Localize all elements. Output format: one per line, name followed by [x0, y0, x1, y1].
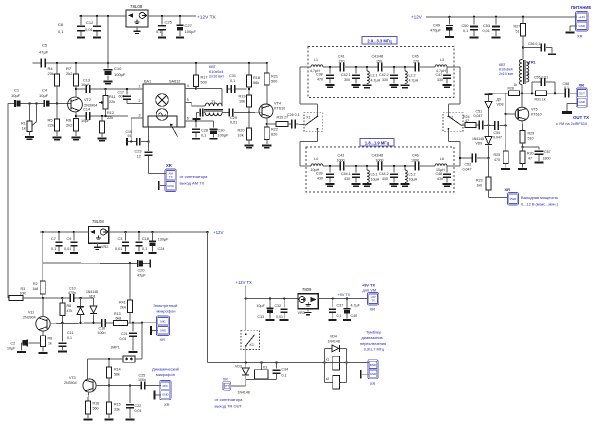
svg-text:выход АМ ТХ: выход АМ ТХ: [180, 181, 205, 186]
svg-text:ПТТ: ПТТ: [224, 384, 230, 388]
svg-text:C26 0,1: C26 0,1: [287, 113, 300, 117]
inductor L6: [435, 157, 447, 172]
annotation +9V TX dlya VM: [362, 282, 376, 292]
wire VD4 loop: [324, 348, 346, 382]
ground at dynamic GND: [154, 391, 161, 400]
svg-text:78L08: 78L08: [92, 219, 104, 224]
inductor L3: [435, 58, 447, 73]
svg-text:C31: C31: [229, 74, 236, 78]
svg-text:430: 430: [317, 176, 323, 180]
node C22 top: [129, 384, 131, 386]
svg-text:R20: R20: [238, 129, 245, 133]
svg-text:10µF: 10µF: [257, 304, 266, 308]
capacitor C2 polarized: [7, 339, 41, 352]
net label +12V TX bottom: [236, 280, 253, 285]
svg-text:Динамический: Динамический: [152, 367, 179, 372]
capacitor C17: [118, 88, 132, 104]
svg-text:ТХ: ТХ: [169, 175, 173, 179]
svg-text:C43/48: C43/48: [372, 154, 384, 158]
svg-text:78L08: 78L08: [130, 4, 143, 9]
svg-text:R30: R30: [527, 152, 534, 156]
wire +12V TX top rail left: [79, 15, 126, 17]
capacitor C1 polarized: [11, 88, 21, 108]
label XR electret: [160, 337, 166, 342]
wire filter2 entry: [300, 165, 311, 167]
svg-text:1000: 1000: [337, 158, 345, 162]
svg-text:1.8...1.9 МГц: 1.8...1.9 МГц: [365, 140, 390, 145]
svg-text:C12: C12: [86, 20, 94, 25]
net label +12V right: [411, 15, 423, 20]
node bus R4: [56, 62, 58, 64]
svg-text:2х10 вит: 2х10 вит: [209, 75, 224, 79]
capacitor C52 series: [459, 154, 489, 172]
voltage regulator VR2: [88, 227, 108, 244]
svg-text:2N3904: 2N3904: [64, 381, 77, 385]
connector XR AM TX: [165, 169, 176, 192]
svg-text:R12: R12: [107, 111, 114, 115]
core label TR1 blue: [499, 63, 514, 76]
connector XR dynamic: [160, 381, 171, 400]
capacitor C27 polarized: [176, 16, 196, 39]
net label +9V TX on wire: [338, 293, 351, 297]
svg-text:КВТ: КВТ: [499, 63, 506, 67]
capacitor C18: [135, 232, 149, 254]
wire VT2 emitter: [75, 112, 77, 119]
svg-text:XR: XR: [577, 34, 583, 39]
svg-text:C30: C30: [218, 129, 225, 133]
svg-text:выход TR OUT: выход TR OUT: [215, 404, 243, 409]
filter1 title box: [362, 37, 397, 45]
wire second rail: [43, 262, 137, 265]
svg-text:C28: C28: [201, 129, 208, 133]
svg-text:C34: C34: [282, 368, 289, 372]
resistor R14: [107, 359, 121, 386]
transistor VT2 2N3904: [68, 97, 98, 112]
wire C29 to VT4 base: [234, 111, 262, 113]
svg-text:470: 470: [317, 77, 323, 81]
svg-text:1k8: 1k8: [33, 287, 39, 291]
resistor R8: [60, 298, 73, 323]
svg-text:0,1: 0,1: [156, 29, 162, 34]
capacitor C42.1: [341, 66, 361, 88]
svg-text:XR: XR: [223, 378, 228, 382]
oscillator symbol: [156, 109, 168, 121]
ground below VR2: [94, 243, 101, 250]
capacitor C16b 100n series: [98, 319, 106, 335]
wire main bus y63: [46, 62, 267, 64]
node C50: [473, 16, 475, 18]
svg-text:1k0: 1k0: [477, 183, 483, 187]
svg-text:К10х6х4: К10х6х4: [209, 70, 223, 74]
net label +12V TX: [197, 14, 217, 20]
oscillator sub-box: [148, 116, 178, 137]
resistor R29: [520, 131, 534, 148]
svg-text:56k: 56k: [114, 372, 120, 376]
svg-text:2.9...3.3 МГц: 2.9...3.3 МГц: [367, 38, 392, 43]
capacitor C23: [135, 150, 153, 159]
svg-text:XR: XR: [579, 83, 585, 88]
node R2 R3 collector: [42, 297, 44, 299]
node C18: [138, 231, 140, 233]
resistor R15 series: [267, 116, 291, 127]
wire audio input: [8, 103, 14, 105]
svg-text:+12V TX: +12V TX: [236, 280, 253, 285]
wire VR2 output bus: [109, 231, 208, 233]
svg-text:0,01: 0,01: [230, 121, 237, 125]
svg-text:C42.2: C42.2: [379, 73, 389, 77]
wire C10b to diodes: [75, 297, 94, 299]
capacitor C25: [156, 16, 173, 39]
node VD1a bottom: [79, 322, 81, 324]
pin 2: [137, 99, 143, 104]
svg-text:100µF: 100µF: [114, 72, 126, 77]
svg-text:от синтезатора: от синтезатора: [180, 174, 209, 179]
wire V11 collector: [42, 298, 44, 317]
svg-text:22k: 22k: [107, 116, 113, 120]
relay coil k2: [324, 376, 346, 390]
svg-text:100µF: 100µF: [218, 133, 230, 137]
wire base: [506, 113, 516, 115]
node junction C27: [179, 15, 181, 17]
jumper JMP1: [109, 323, 142, 362]
svg-text:R29: R29: [528, 132, 535, 136]
svg-text:47µF: 47µF: [137, 274, 146, 278]
svg-text:C41/48: C41/48: [372, 55, 384, 59]
svg-text:R22: R22: [271, 128, 278, 132]
svg-text:10µF: 10µF: [81, 83, 90, 87]
svg-text:130µF: 130µF: [158, 238, 170, 242]
svg-text:+12V: +12V: [411, 15, 423, 20]
wire K3 to rail: [245, 346, 247, 363]
svg-text:KT610: KT610: [274, 107, 285, 111]
node emitter C14: [75, 115, 77, 117]
wire C23 to AM TX pin: [149, 156, 167, 174]
resistor R13 series: [106, 312, 156, 325]
svg-text:C38: C38: [316, 73, 323, 77]
node JMP left: [108, 358, 110, 360]
svg-text:10µF: 10µF: [39, 93, 49, 98]
capacitor C33 10uF: [257, 299, 275, 321]
label XR PITANIE: [577, 34, 583, 39]
svg-text:C56 0,1: C56 0,1: [528, 42, 540, 46]
wire filter1 exit: [447, 66, 460, 68]
wire T1 secondary to C29: [222, 112, 229, 114]
wire emitter node: [523, 146, 540, 148]
relay X1 label: [306, 115, 311, 119]
pin 5: [185, 98, 192, 102]
transistor VT4 KT610: [259, 102, 285, 119]
node R18 R19 C31: [248, 88, 250, 90]
ground below VR1: [134, 27, 141, 34]
relay X1 switch: [305, 115, 318, 129]
svg-text:600: 600: [119, 94, 125, 98]
wire C4 to VT2 base: [50, 103, 71, 105]
node R27: [522, 16, 524, 18]
node R11 top: [104, 88, 106, 90]
svg-text:Тумблер: Тумблер: [366, 330, 381, 335]
svg-text:0,01: 0,01: [276, 315, 283, 319]
resistor R2: [33, 263, 46, 298]
resistor R30: [518, 147, 534, 170]
node junction C10 feed: [107, 15, 109, 17]
svg-text:к1: к1: [326, 357, 329, 361]
svg-text:C42.1: C42.1: [341, 73, 351, 77]
resistor R31: [535, 91, 565, 102]
capacitor C11: [58, 323, 74, 353]
inductor L2.1: [362, 66, 380, 89]
svg-text:к УМ на 2xIRF510: к УМ на 2xIRF510: [556, 122, 587, 126]
resistor R21: [264, 63, 278, 104]
pin 4: [185, 84, 196, 88]
capacitor C49 470uF: [430, 17, 454, 38]
node mixer bottom: [147, 140, 149, 142]
svg-text:1N4148: 1N4148: [472, 137, 484, 141]
svg-text:C50: C50: [462, 24, 469, 28]
connector PITANIE label: [571, 5, 591, 10]
wire +12V right rail: [426, 16, 576, 18]
svg-text:C49: C49: [433, 24, 440, 28]
resistor R25: [494, 125, 511, 170]
svg-text:1k: 1k: [22, 126, 26, 130]
capacitor C39: [316, 165, 335, 187]
capacitor C56 to ground: [522, 42, 556, 55]
node R11 bottom: [104, 115, 106, 117]
node C49: [448, 16, 450, 18]
net label +12V bottom: [213, 230, 223, 235]
node R41 riser: [129, 262, 131, 264]
wire VT4 emitter: [266, 118, 268, 124]
relay K2 dashed box: [443, 113, 463, 132]
resistor R3 series: [9, 287, 26, 301]
capacitor C10 100uF: [103, 63, 126, 85]
svg-text:R6: R6: [48, 337, 53, 341]
node B C52: [487, 157, 489, 159]
transformer TR1: [519, 59, 529, 93]
svg-text:C3: C3: [118, 237, 123, 241]
svg-text:0,1: 0,1: [463, 29, 468, 33]
resistor R19: [239, 95, 252, 113]
relay K3 contact dashed box: [241, 330, 260, 349]
relay K3 switch: [245, 333, 255, 346]
svg-text:к2: к2: [326, 377, 329, 381]
svg-text:X1: X1: [306, 115, 311, 119]
svg-text:0,01: 0,01: [483, 29, 490, 33]
node C24: [151, 231, 153, 233]
svg-text:100µF: 100µF: [185, 29, 197, 34]
svg-text:C8: C8: [58, 22, 64, 27]
svg-text:0,1: 0,1: [282, 374, 287, 378]
svg-text:0,01: 0,01: [85, 27, 94, 32]
node bus R7: [75, 62, 77, 64]
capacitor C20 series polarized: [137, 260, 151, 278]
svg-text:переключения: переключения: [360, 341, 386, 346]
svg-text:330: 330: [437, 78, 443, 82]
svg-text:2k2: 2k2: [66, 123, 73, 128]
svg-text:620: 620: [271, 132, 277, 136]
svg-text:C54: C54: [494, 131, 501, 135]
resistor R27: [514, 17, 526, 59]
svg-text:270: 270: [339, 59, 345, 63]
svg-text:0...12 В (макс...мин.): 0...12 В (макс...мин.): [521, 201, 559, 206]
svg-text:270: 270: [413, 59, 419, 63]
svg-text:GND: GND: [579, 100, 585, 104]
filter2 dashed box: [306, 147, 454, 192]
node JMP riser: [141, 322, 143, 324]
ground at PITANIE GND: [566, 26, 577, 34]
resistor R12: [97, 111, 114, 142]
capacitor C5 series: [39, 43, 49, 68]
svg-text:7809: 7809: [302, 287, 312, 292]
svg-text:C57: C57: [544, 150, 551, 154]
svg-text:R25: R25: [494, 153, 501, 157]
resistor R18: [247, 63, 260, 95]
svg-text:+12V: +12V: [578, 15, 585, 19]
svg-text:L2.1: L2.1: [371, 74, 378, 78]
svg-text:0,01: 0,01: [120, 337, 127, 341]
wire coil common rail: [246, 379, 277, 381]
svg-text:C1: C1: [14, 88, 20, 93]
wire VD8 to R28: [489, 92, 509, 94]
label VR3: [298, 311, 305, 315]
capacitor C41/48 series: [372, 55, 384, 72]
svg-text:C45: C45: [412, 55, 419, 59]
svg-text:VD4: VD4: [330, 335, 337, 339]
svg-text:XR: XR: [164, 402, 170, 407]
svg-text:ПИТАНИЕ: ПИТАНИЕ: [571, 5, 591, 10]
node bus R21: [266, 62, 268, 64]
capacitor C10b 470n series: [68, 287, 76, 303]
svg-text:C10: C10: [114, 66, 122, 71]
svg-text:33k: 33k: [114, 407, 120, 411]
svg-text:2: 2: [139, 99, 141, 103]
diode VD4: [328, 335, 341, 352]
svg-text:R14: R14: [114, 368, 121, 372]
svg-text:XR: XR: [370, 381, 376, 386]
svg-text:R2: R2: [33, 282, 38, 286]
capacitor C31 with terminal: [227, 74, 247, 93]
diode VD3: [235, 363, 250, 395]
resistor R28 feedback: [508, 83, 520, 96]
node R1 top: [28, 102, 30, 104]
svg-text:C43: C43: [338, 154, 345, 158]
IC BA1 SA612 labels: [144, 80, 180, 84]
node C7: [58, 231, 60, 233]
svg-text:1N4148: 1N4148: [86, 290, 98, 294]
svg-text:Выходная мощность: Выходная мощность: [521, 195, 558, 200]
capacitor C32: [275, 299, 289, 321]
svg-text:VT5: VT5: [531, 108, 538, 112]
svg-text:L2.2: L2.2: [409, 74, 416, 78]
svg-text:C37: C37: [337, 304, 344, 308]
svg-text:VT4: VT4: [274, 102, 281, 106]
svg-text:91: 91: [128, 134, 132, 138]
svg-text:500: 500: [271, 79, 277, 83]
label VR2: [101, 245, 108, 249]
svg-text:0,01: 0,01: [135, 409, 142, 413]
node C3: [124, 231, 126, 233]
wire VT2 collector: [75, 89, 77, 98]
resistor R7: [66, 63, 79, 98]
annotation from synthesizer TR: [215, 397, 244, 409]
wire C51 to node A: [484, 124, 494, 126]
svg-text:C44.1: C44.1: [341, 172, 351, 176]
svg-text:10µН: 10µН: [409, 177, 418, 181]
ground at band GND: [360, 370, 369, 379]
svg-text:0,1: 0,1: [564, 86, 569, 90]
svg-text:C5: C5: [42, 43, 48, 48]
connector XR +9V TX: [367, 293, 378, 306]
svg-text:R21: R21: [271, 75, 278, 79]
capacitor C24 130uF: [149, 232, 169, 254]
wire L1 to C41: [323, 66, 340, 68]
svg-text:10k: 10k: [238, 133, 244, 137]
svg-text:0,047: 0,047: [463, 167, 472, 171]
connector XR PWR label: [505, 187, 511, 192]
wire C1 to C4: [20, 103, 43, 105]
voltage regulator VR3 7809: [298, 294, 318, 309]
svg-text:MIC: MIC: [160, 319, 165, 323]
svg-text:10K: 10K: [20, 291, 27, 295]
relay K3 coil: [255, 363, 269, 380]
svg-text:R16: R16: [93, 402, 100, 406]
svg-text:R31 1k: R31 1k: [535, 98, 546, 102]
svg-text:6: 6: [187, 117, 189, 121]
resistor R41: [119, 300, 133, 323]
svg-text:+9V TX: +9V TX: [338, 293, 351, 297]
capacitor C30 100uF: [196, 121, 229, 140]
svg-text:C23: C23: [135, 150, 142, 154]
filter1 dashed box: [308, 47, 454, 98]
svg-text:430: 430: [437, 177, 443, 181]
node 7809 bus: [245, 297, 247, 299]
svg-text:Электретный: Электретный: [153, 303, 177, 308]
svg-text:1k: 1k: [514, 83, 518, 87]
wire VR2 input bus: [40, 231, 88, 233]
wire 78L08 output to +12V TX: [148, 15, 196, 17]
transistor VT3 2N3904: [64, 376, 96, 392]
wire C4348 to C46: [383, 165, 415, 167]
svg-text:C55 0,01: C55 0,01: [534, 75, 548, 79]
svg-text:100n: 100n: [98, 331, 106, 335]
svg-text:0,1: 0,1: [337, 314, 342, 318]
capacitor C22: [126, 386, 142, 421]
svg-text:R19: R19: [239, 95, 246, 99]
svg-text:OUT: OUT: [579, 91, 585, 95]
capacitor C51 series: [474, 110, 484, 130]
capacitor C34: [273, 363, 289, 380]
voltage regulator VR1 78L08 label: [130, 4, 143, 9]
svg-text:XR: XR: [160, 337, 166, 342]
svg-text:микрофон: микрофон: [157, 309, 176, 314]
svg-text:0,047: 0,047: [493, 136, 502, 140]
svg-text:+12V TX: +12V TX: [197, 14, 217, 20]
capacitor C53: [483, 17, 501, 39]
node emitter divider: [521, 146, 523, 148]
node VD1a: [79, 297, 81, 299]
svg-text:R15: R15: [114, 403, 121, 407]
svg-text:+12V: +12V: [213, 230, 223, 235]
connector PITANIE: [576, 12, 589, 32]
wire filter2 exit: [447, 165, 460, 167]
svg-text:C14: C14: [83, 108, 90, 112]
svg-text:20k: 20k: [48, 71, 54, 76]
svg-text:Д9: Д9: [497, 98, 501, 102]
svg-text:R17: R17: [201, 76, 208, 80]
svg-text:0,01: 0,01: [115, 247, 122, 251]
inductor L5.2: [400, 165, 417, 187]
svg-text:22k: 22k: [109, 100, 115, 104]
ground at electret GND: [150, 326, 158, 335]
